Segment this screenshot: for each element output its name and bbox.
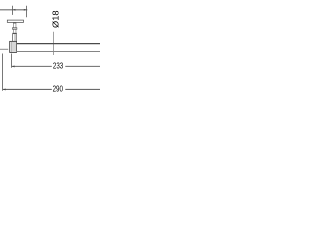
svg-text:Ø18: Ø18	[51, 10, 61, 28]
svg-text:290: 290	[53, 84, 64, 93]
svg-text:233: 233	[53, 61, 64, 70]
